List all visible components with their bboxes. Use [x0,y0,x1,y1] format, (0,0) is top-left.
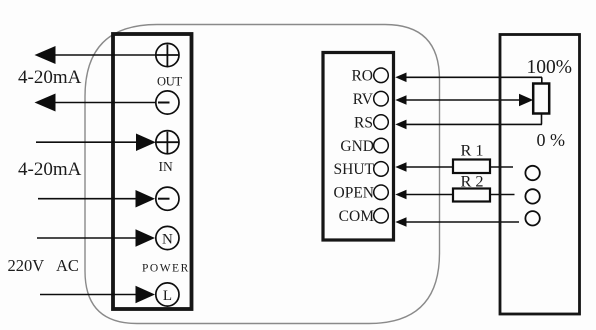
pin RO [374,68,389,83]
wire OUT+ [50,54,156,56]
indicator circle 3 [525,211,539,225]
svg-text:COM: COM [339,208,375,225]
arrow RV left [395,95,406,105]
wire L [40,294,140,296]
arrow right L [136,286,156,304]
indicator circle 1 [525,166,539,180]
arrow RO [395,73,406,83]
svg-text:220V: 220V [8,256,45,275]
arrow left OUT+ [35,46,56,64]
wire IN+ [36,141,140,143]
resistor R2 [453,189,490,202]
arrow OPEN [395,190,406,200]
indicator circle 2 [525,189,539,203]
wire N [37,237,140,239]
pin RV [374,91,389,106]
terminal L [156,283,179,306]
svg-text:AC: AC [56,256,79,275]
arrow COM [395,217,406,227]
svg-text:OPEN: OPEN [334,185,374,202]
pot bottom lead [541,114,543,125]
terminal OUT+ [156,43,179,66]
arrow RV right (wiper) [519,94,533,106]
pot top lead [541,77,543,83]
actuator body (rounded rectangle) [85,25,440,324]
svg-text:4-20mA: 4-20mA [18,67,82,88]
arrow SHUT [395,162,406,172]
svg-text:4-20mA: 4-20mA [18,159,82,180]
terminal IN+ [156,131,179,154]
arrow right IN- [136,190,156,208]
svg-text:N: N [162,232,173,248]
wire OUT- [50,102,167,104]
pin GND [374,138,389,153]
arrow right N [136,229,156,247]
arrow right IN+ [136,134,156,152]
terminal OUT- [156,91,179,114]
arrow RS [395,120,406,130]
svg-text:L: L [163,288,172,304]
pin COM [374,208,389,223]
svg-text:RS: RS [354,114,373,131]
resistor R1 [453,160,490,174]
arrow left OUT- [35,94,56,112]
control board block [323,53,394,241]
terminal N [156,226,179,249]
svg-text:GND: GND [340,138,374,155]
terminal IN- [156,187,179,210]
svg-text:0 %: 0 % [537,130,566,150]
wire IN- [38,198,140,200]
svg-text:100%: 100% [527,57,573,78]
svg-text:OUT: OUT [157,74,182,88]
control panel box [500,35,580,315]
potentiometer [533,84,549,114]
terminal block TB1 [113,34,192,309]
pin SHUT [374,162,389,177]
wire RO [404,76,542,78]
pin RS [374,115,389,130]
svg-text:IN: IN [159,159,173,174]
svg-text:RO: RO [351,68,373,85]
svg-text:SHUT: SHUT [334,161,375,178]
svg-text:RV: RV [353,91,374,108]
svg-text:R 1: R 1 [461,141,484,160]
svg-text:POWER: POWER [142,262,190,274]
wire COM [404,221,519,223]
pin OPEN [374,185,389,200]
wire RS [404,123,542,125]
wire OPEN [404,194,515,196]
wire RV [404,99,521,101]
wire SHUT [404,166,513,168]
